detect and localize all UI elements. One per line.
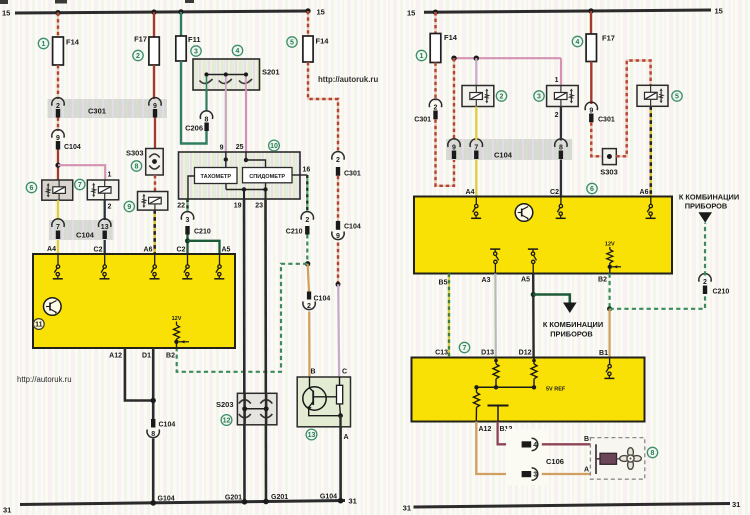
svg-text:B2: B2 — [598, 277, 607, 284]
svg-text:15: 15 — [407, 9, 415, 18]
wire C106-4 to valve B (maroon) — [542, 443, 596, 445]
relay 9 — [138, 192, 168, 211]
svg-text:8: 8 — [205, 117, 209, 124]
svg-text:12: 12 — [223, 418, 231, 425]
wire F14-1 top (red/white stripe) — [57, 13, 59, 37]
node color splice — [336, 282, 341, 287]
svg-text:C2: C2 — [177, 247, 186, 254]
svg-text:A12: A12 — [109, 353, 122, 360]
svg-text:S303: S303 — [126, 149, 144, 158]
wire A12 (black) — [125, 348, 153, 401]
switch C2b (inside box11) — [182, 254, 192, 279]
switch C2 (box6) — [556, 197, 566, 219]
wire node to B1 (tan) — [608, 309, 610, 358]
wire fuse1 to C301 (red/white stripe) — [57, 65, 59, 99]
C210 pin 2 far right — [699, 274, 730, 296]
svg-text:9: 9 — [127, 204, 131, 211]
svg-text:31: 31 — [732, 500, 740, 509]
circled 3 right — [534, 91, 544, 101]
svg-text:C301: C301 — [414, 117, 431, 124]
C104 pin 13 — [99, 219, 111, 239]
svg-text:15: 15 — [317, 8, 325, 17]
wire rail to C104-9 (red/white stripe) — [453, 58, 455, 140]
svg-text:7: 7 — [474, 144, 478, 151]
svg-text:2: 2 — [336, 157, 340, 164]
svg-text:3: 3 — [194, 49, 198, 56]
svg-text:6: 6 — [590, 186, 594, 193]
switch A4 (inside box11) — [53, 254, 63, 279]
circled 6 right — [587, 183, 597, 193]
wire C210-2 down to node (green/white dash) — [306, 235, 308, 264]
T probe above B12 — [488, 406, 509, 422]
svg-text:D1: D1 — [142, 353, 151, 360]
circled 11 — [33, 319, 44, 330]
svg-text:1: 1 — [420, 53, 424, 60]
wire splice to box13 C (lavender) — [338, 284, 339, 377]
circled 1 right — [416, 50, 426, 60]
ECM yellow box 6 right — [414, 197, 672, 274]
C301 pin 2 (fuse5 chain) — [332, 152, 361, 178]
wire C301-9 to S303 (dark red) — [154, 118, 156, 149]
C301 pin 2 right — [414, 99, 441, 123]
circled 2 — [133, 50, 143, 60]
circled 4 — [232, 45, 242, 55]
wire relay7 pin2 to C2 (dark blue) — [105, 200, 112, 254]
fuse F17 right (4) — [586, 34, 615, 62]
svg-text:7: 7 — [463, 345, 467, 352]
svg-text:ПРИБОРОВ: ПРИБОРОВ — [685, 202, 728, 211]
wire C104 to color node (red/white stripe) — [337, 243, 339, 285]
speedometer block — [243, 168, 293, 183]
svg-text:A5: A5 — [521, 277, 530, 284]
S201 switch box (4) — [193, 59, 280, 90]
wire S303R to relay5 (red/white stripe) — [616, 61, 650, 157]
wire F14-5 top (red/white stripe) — [307, 11, 309, 36]
fuse F14 (5) — [303, 36, 329, 62]
cluster text mid — [543, 320, 603, 339]
svg-text:3: 3 — [537, 94, 541, 101]
svg-text:C104: C104 — [494, 151, 513, 160]
wire B2 to node (green/white dash) — [608, 274, 610, 309]
switch A6 (inside box11) — [150, 254, 160, 279]
wire B5 to C13 (yellow/green dash) — [448, 274, 450, 358]
svg-text:31: 31 — [349, 497, 357, 506]
svg-text:S201: S201 — [262, 68, 280, 77]
svg-text:C301: C301 — [598, 117, 615, 124]
svg-text:C: C — [342, 369, 347, 376]
instrument module box 10 — [179, 152, 308, 199]
relay 3 — [547, 86, 579, 107]
svg-text:2: 2 — [108, 204, 112, 211]
C104 pin 9 (fuse5 chain, arc below) — [332, 221, 361, 240]
relay 5 — [637, 85, 668, 106]
amplifier box 13 — [297, 369, 350, 442]
svg-text:8: 8 — [135, 164, 139, 171]
circled 10 — [269, 140, 280, 151]
svg-text:10: 10 — [270, 143, 278, 150]
svg-text:9: 9 — [589, 108, 593, 115]
circled 2 right — [496, 91, 506, 101]
wire node to B2 of box11 (green/white dash) — [177, 264, 308, 372]
circled 7 — [75, 179, 85, 189]
ground bus 31 left — [3, 497, 357, 515]
svg-text:C210: C210 — [194, 229, 211, 236]
circled 7 right — [459, 342, 469, 352]
svg-text:B2: B2 — [166, 353, 175, 360]
wire box13 A to ground (black) — [339, 427, 342, 501]
svg-text:8: 8 — [651, 450, 655, 457]
node B2 right — [607, 306, 612, 311]
svg-text:C104: C104 — [159, 422, 176, 429]
svg-text:12V: 12V — [172, 316, 182, 322]
wire node to C104-2 (tan) — [308, 264, 309, 292]
svg-text:4: 4 — [533, 442, 537, 449]
svg-text:D13: D13 — [481, 350, 494, 357]
wire F14R top (red/white stripe) — [434, 12, 436, 33]
C104 pin 2 (tan wire, arc below) — [303, 292, 330, 311]
wire pin16 to C210 (green/black stripe) — [306, 175, 308, 211]
svg-text:C104: C104 — [344, 224, 361, 231]
C301 pin 2 — [52, 98, 64, 118]
svg-text:1: 1 — [108, 172, 112, 179]
svg-text:C13: C13 — [435, 350, 448, 357]
svg-text:A3: A3 — [482, 277, 491, 284]
C210 pin 2 (right of box10) — [286, 212, 314, 236]
wire A12 to C106-3 (tan) — [476, 422, 520, 475]
circled 12 — [221, 415, 232, 426]
wire fuse2 to C301 (dark red) — [153, 65, 155, 99]
circled 1 — [38, 38, 48, 48]
12V resistor (box11) — [172, 316, 189, 348]
ECM yellow box 7 right (second) — [412, 358, 645, 422]
wire F11 top (green) — [180, 12, 182, 36]
svg-text:C2: C2 — [94, 247, 103, 254]
tachometer block — [195, 168, 238, 184]
svg-text:2: 2 — [703, 279, 707, 286]
svg-text:3: 3 — [186, 217, 190, 224]
wire C104 to relay6 (dark red) with tap to relay7 — [57, 150, 59, 181]
svg-text:G104: G104 — [158, 496, 175, 503]
node relay tap — [55, 163, 60, 168]
switch A5 (inside box11) — [214, 254, 224, 279]
transistor icon (box6) — [515, 204, 533, 222]
wire B12 to C106-4 (maroon) — [498, 422, 521, 445]
switch below B1 (box7) — [604, 358, 614, 379]
cluster arrow mid — [563, 303, 577, 314]
svg-text:C104: C104 — [76, 231, 95, 240]
cluster arrow right — [698, 212, 712, 223]
wire C210 to C2/A5 (dark green) — [185, 235, 220, 255]
wire C301-9 to S303R (red/white stripe) — [591, 122, 602, 156]
wire C301 to C104 (red/white stripe) — [57, 118, 59, 132]
svg-text:13: 13 — [308, 432, 316, 439]
svg-text:A12: A12 — [479, 426, 492, 433]
svg-text:B: B — [584, 436, 589, 443]
svg-text:4: 4 — [236, 48, 240, 55]
svg-text:2: 2 — [500, 94, 504, 101]
svg-text:F17: F17 — [134, 35, 147, 44]
wire node to C210 right (green/white dash) — [610, 294, 705, 309]
wire C104-8 to G104 (black) — [152, 439, 155, 504]
svg-text:23: 23 — [255, 203, 263, 210]
transistor icon (box11) — [44, 298, 62, 316]
svg-text:B1: B1 — [599, 350, 608, 357]
svg-text:G104: G104 — [320, 494, 337, 501]
wire rail to relay3 pin1 (pink) — [555, 58, 561, 85]
svg-text:2: 2 — [136, 53, 140, 60]
C104R pin 9 — [448, 139, 460, 159]
C106 pin 4 — [522, 438, 538, 450]
wire relay5 to A6 (black/yellow stripe) — [650, 106, 653, 197]
svg-text:8: 8 — [151, 431, 155, 438]
svg-text:31: 31 — [403, 504, 411, 513]
bus 15 right — [407, 7, 723, 18]
wire branch to cluster arrow (dark green) — [533, 295, 570, 304]
S303 connector (8) — [126, 149, 163, 176]
svg-text:C106: C106 — [546, 457, 564, 466]
svg-text:F14: F14 — [66, 38, 80, 47]
cluster text right — [679, 193, 739, 211]
node bus15R-F17 — [588, 8, 593, 13]
svg-text:A: A — [584, 467, 589, 474]
12V resistor (box6) — [605, 242, 621, 274]
circled 5 right — [672, 91, 682, 101]
svg-text:ПРИБОРОВ: ПРИБОРОВ — [550, 330, 593, 339]
resistor above A12 — [474, 387, 480, 421]
circled 4 right — [572, 36, 582, 46]
svg-text:G201: G201 — [271, 494, 288, 501]
wire F17 top (dark red) — [153, 12, 155, 37]
svg-text:13: 13 — [101, 224, 109, 231]
wire relay3 pin2 to C2 (black) — [555, 107, 561, 198]
svg-text:F17: F17 — [602, 34, 615, 43]
wire S303 to relay9 (red/white stripe) — [154, 175, 156, 192]
svg-text:16: 16 — [303, 167, 311, 174]
connector C206 pin 8 — [185, 111, 213, 133]
circled 13 — [306, 429, 317, 440]
switch above A3 (box6 bottom, inverted) — [490, 249, 500, 273]
node bus15L-F14 — [55, 10, 60, 15]
fuse F14 (1) — [53, 37, 80, 65]
svg-text:5: 5 — [675, 94, 679, 101]
svg-text:9: 9 — [220, 145, 224, 152]
svg-text:A4: A4 — [47, 246, 56, 253]
svg-text:http://autoruk.ru: http://autoruk.ru — [17, 375, 72, 384]
svg-text:2: 2 — [305, 217, 309, 224]
svg-text:9: 9 — [153, 103, 157, 110]
wire C301 jog to C104-9 (red/white stripe) — [436, 119, 455, 186]
svg-text:5: 5 — [290, 40, 294, 47]
C210 pin 3 — [181, 212, 211, 236]
switch A6 (box6) — [646, 197, 656, 219]
5V REF node line — [474, 385, 566, 392]
wire fuse4 to C301-9 (dark red) — [590, 62, 592, 105]
svg-text:СПИДОМЕТР: СПИДОМЕТР — [249, 174, 285, 180]
svg-text:19: 19 — [234, 203, 242, 210]
node A12-D1 — [151, 398, 156, 403]
svg-text:A4: A4 — [466, 189, 475, 196]
switch C2 (inside box11) — [100, 254, 110, 279]
svg-text:7: 7 — [56, 224, 60, 231]
svg-text:C2: C2 — [550, 189, 559, 196]
svg-text:6: 6 — [30, 185, 34, 192]
circled 9 — [124, 201, 134, 211]
svg-text:К КОМБИНАЦИИ: К КОМБИНАЦИИ — [679, 193, 739, 202]
svg-text:25: 25 — [236, 144, 244, 151]
svg-text:2: 2 — [555, 112, 559, 119]
switch above A5 (box6 bottom, inverted) — [528, 249, 538, 273]
node bus15L-F11 — [178, 9, 183, 14]
svg-text:A6: A6 — [640, 189, 649, 196]
wire fuse5 jog to C301 (red/white stripe) — [308, 62, 338, 151]
C104 pin 8 (arc below pin) — [147, 419, 175, 438]
circled 3 — [191, 46, 201, 56]
svg-text:9: 9 — [56, 135, 60, 142]
fuse F11 (3) — [176, 35, 201, 61]
bus 15 left — [2, 8, 325, 18]
svg-text:C104: C104 — [314, 296, 331, 303]
ECM yellow box 11 — [33, 254, 235, 348]
svg-text:1: 1 — [555, 77, 559, 84]
wire pin23 to ground (black) — [264, 199, 267, 502]
svg-text:C210: C210 — [286, 229, 303, 236]
svg-text:A: A — [344, 434, 349, 441]
node bus15R-F14 — [433, 10, 438, 15]
wire C104-2 to box13 B (tan) — [308, 312, 310, 378]
wire C210 to cluster arrow right (green/white dash) — [704, 223, 706, 276]
wire F17R top (dark red) — [590, 11, 592, 34]
relay 2 — [462, 86, 494, 107]
svg-text:15: 15 — [2, 9, 10, 18]
svg-text:F14: F14 — [444, 33, 458, 42]
ground node G201b — [263, 499, 269, 505]
svg-text:C301: C301 — [88, 107, 106, 116]
pink feed rail — [451, 56, 561, 61]
wire S201 left to C206 (green) — [205, 90, 207, 111]
wire relay2 to A4 (yellow) — [475, 107, 477, 141]
svg-text:A5: A5 — [222, 247, 231, 254]
wire A5 to D12 (black) — [532, 274, 535, 358]
svg-text:11: 11 — [35, 322, 43, 329]
svg-text:D12: D12 — [519, 350, 532, 357]
svg-text:7: 7 — [78, 182, 82, 189]
relay 7 — [87, 180, 118, 200]
wire relay9 to A6 (black/yellow stripe) — [153, 210, 156, 254]
svg-text:2: 2 — [56, 103, 60, 110]
wire A3 to D13 (gray) — [494, 274, 497, 358]
switch A4 (box6) — [471, 197, 481, 219]
svg-text:S203: S203 — [216, 400, 234, 409]
svg-text:http://autoruk.ru: http://autoruk.ru — [318, 75, 378, 84]
wire tap to relay7 pin1 (pink) — [58, 165, 105, 180]
C104R pin 7 — [470, 139, 482, 159]
svg-text:8: 8 — [559, 144, 563, 151]
svg-text:9: 9 — [452, 144, 456, 151]
C301 pin 9 right — [585, 102, 615, 123]
S203 connector box (12) — [216, 393, 277, 425]
node bus15L-F14b — [305, 8, 310, 13]
ground node G201 — [242, 499, 248, 505]
wire C106-3 to valve A (tan) — [542, 473, 596, 475]
svg-text:ТАХОМЕТР: ТАХОМЕТР — [201, 174, 232, 180]
svg-text:B: B — [311, 369, 316, 376]
ground node G104b — [338, 498, 344, 504]
C106 connector band — [506, 429, 548, 485]
wire S201 right to box10 pin25 (pink) — [245, 90, 247, 152]
connector band C104 left — [49, 220, 114, 240]
svg-text:B5: B5 — [439, 280, 448, 287]
wire pin19 to ground (black) — [243, 199, 246, 502]
svg-text:22: 22 — [177, 203, 185, 210]
relay 6 — [42, 180, 73, 200]
resistor below D13 — [493, 358, 499, 388]
wire relay6 to A4 (yellow) — [57, 200, 59, 221]
svg-text:5V REF: 5V REF — [546, 387, 566, 393]
circled 6 — [26, 182, 36, 192]
connector band C301 — [48, 99, 168, 118]
C104 pin 9 (arc above pin) — [52, 130, 81, 151]
C104R pin 8 — [555, 139, 567, 159]
wire rail to relay2 (lavender) — [475, 58, 477, 85]
svg-text:9: 9 — [336, 233, 340, 240]
canister purge valve box (8) — [590, 438, 644, 480]
svg-text:F14: F14 — [316, 37, 330, 46]
svg-text:3: 3 — [533, 472, 537, 479]
svg-text:4: 4 — [576, 39, 580, 46]
node B2 junction — [305, 261, 310, 266]
scan edge smudges — [0, 0, 194, 4]
svg-text:C210: C210 — [713, 289, 730, 296]
ground bus 31 right — [403, 500, 741, 513]
connector band C104 right — [446, 139, 572, 160]
svg-text:A6: A6 — [144, 247, 153, 254]
fuse F14 right (1) — [430, 33, 458, 63]
svg-text:2: 2 — [307, 303, 311, 310]
C106 pin 3 — [522, 468, 538, 480]
wire pin22 to C210 (green/black stripe) — [186, 199, 188, 211]
ground node G104 — [150, 500, 156, 506]
svg-text:S303: S303 — [600, 168, 618, 177]
svg-text:G201: G201 — [225, 495, 242, 502]
resistor below D12 — [531, 358, 537, 388]
svg-text:1: 1 — [42, 41, 46, 48]
circled 8 right — [647, 447, 657, 457]
svg-text:F11: F11 — [188, 35, 201, 44]
svg-text:15: 15 — [715, 7, 723, 16]
svg-text:C104: C104 — [64, 144, 81, 151]
svg-text:C206: C206 — [185, 124, 203, 133]
node bus15L-F17 — [151, 9, 156, 14]
wire fuse to C301 (red/white stripe) — [434, 63, 436, 102]
wire D1 (black) — [152, 348, 155, 419]
C301 pin 9 — [149, 98, 161, 118]
C104 pin 7 — [52, 219, 64, 239]
wire S201 mid to box10 pin9 (pale pink) — [225, 90, 227, 152]
wire C301 to C104 (red/white stripe) — [337, 176, 339, 221]
svg-text:2: 2 — [434, 105, 438, 112]
fuse F17 (2) — [134, 35, 159, 66]
circled 5 — [287, 37, 297, 47]
svg-text:К КОМБИНАЦИИ: К КОМБИНАЦИИ — [543, 320, 603, 329]
wire F11 to C206 loop (green) — [181, 61, 207, 144]
svg-text:C301: C301 — [344, 171, 361, 178]
circled 8 — [131, 161, 141, 171]
svg-text:12V: 12V — [605, 242, 615, 248]
node A5 branch — [531, 292, 536, 297]
svg-text:31: 31 — [3, 506, 11, 515]
S303 right connector — [600, 149, 618, 177]
